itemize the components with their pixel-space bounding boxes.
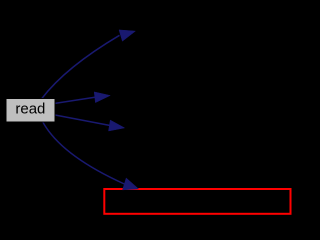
- edge: read -> truncated callee (curved down to red box): [43, 122, 125, 184]
- svg-text:read: read: [15, 101, 45, 118]
- arrowhead: edge read -> callee3: [109, 120, 125, 131]
- node: read (current function, grey): [6, 99, 55, 123]
- arrowhead: edge read -> callee2: [94, 92, 110, 103]
- arrowhead: edge read -> truncated callee: [123, 178, 139, 190]
- node: truncated callee (red box): [104, 189, 290, 214]
- edge: read -> callee3: [55, 115, 110, 125]
- edge: read -> callee1 (curved up): [42, 35, 120, 98]
- edge: read -> callee2: [55, 97, 95, 103]
- arrowhead: edge read -> callee1: [119, 30, 135, 41]
